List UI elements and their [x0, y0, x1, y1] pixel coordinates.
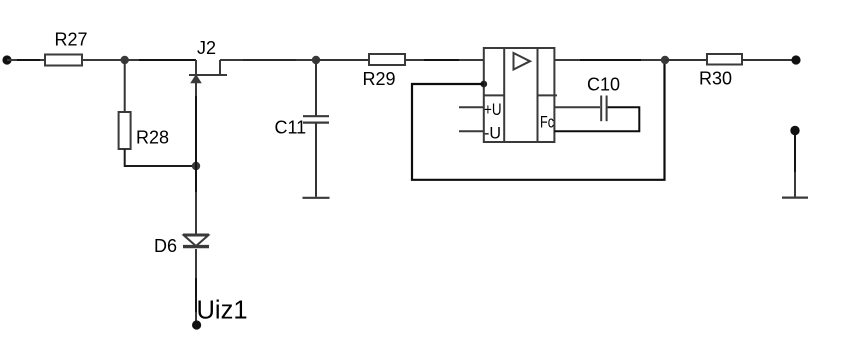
resistor R28 [119, 112, 131, 149]
svg-text:C11: C11 [275, 118, 307, 138]
node junction output [661, 56, 669, 64]
ground under C11 [303, 197, 330, 199]
svg-text:+U: +U [484, 100, 502, 119]
svg-text:-U: -U [484, 123, 501, 142]
svg-text:C10: C10 [587, 75, 620, 95]
resistor R27 [45, 55, 82, 66]
wire gate line down to diode [195, 83, 197, 235]
terminal Uiz1 [192, 320, 201, 329]
transistor J2 [189, 60, 227, 82]
resistor R29 [369, 54, 405, 65]
wire input to R27 [7, 59, 45, 61]
svg-text:Uiz1: Uiz1 [197, 296, 248, 324]
wire R27 to J2 drain [82, 59, 196, 61]
wire C11 node to R29 [316, 59, 369, 61]
power stub +U pin [459, 106, 484, 108]
wire R28 bottom to gate line [125, 149, 196, 166]
capacitor C10 [554, 96, 639, 132]
svg-text:J2: J2 [197, 38, 216, 58]
wire C11 to ground [315, 124, 317, 197]
node junction C11 tap [312, 56, 320, 64]
wire node down to R28 [124, 60, 126, 112]
svg-text:R30: R30 [699, 69, 732, 89]
svg-text:R29: R29 [363, 69, 396, 89]
wire J2 source to C11 node [220, 59, 316, 61]
resistor R30 [707, 54, 742, 65]
op-amp U1 block [484, 48, 557, 142]
node junction R28 tap [121, 56, 129, 64]
node junction gate line [192, 162, 200, 170]
wire op-amp output [554, 59, 665, 61]
wire feedback loop [412, 60, 665, 180]
wire diode to Uiz1 terminal [195, 249, 197, 321]
capacitor C11 [303, 116, 329, 122]
wire output node to R30 [665, 59, 707, 61]
node feedback junction on op-amp input [480, 81, 487, 88]
svg-text:R27: R27 [55, 30, 88, 50]
wire node down to C11 [315, 60, 317, 116]
right output terminal [791, 55, 800, 64]
left input terminal [2, 55, 11, 64]
svg-text:D6: D6 [154, 236, 177, 256]
power stub -U pin [459, 130, 484, 132]
wire R29 to op-amp input [405, 59, 484, 61]
svg-text:R28: R28 [136, 128, 169, 148]
ground reference terminal [782, 126, 808, 198]
wire R30 to output terminal [742, 59, 796, 61]
svg-text:Fc: Fc [540, 113, 554, 132]
diode D6 [183, 235, 209, 247]
